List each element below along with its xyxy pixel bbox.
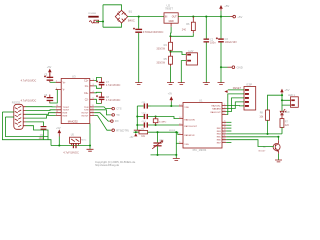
capacitor C5 — [21, 72, 56, 82]
wire bottom rail to bridge — [103, 23, 122, 27]
resistor R8 — [259, 110, 269, 134]
capacitor C6 — [21, 90, 58, 103]
connector X1 AC power input — [88, 13, 99, 23]
junction +5V arrow tap — [220, 16, 222, 18]
svg-text:R1IN: R1IN — [63, 113, 68, 115]
capacitor C1 — [133, 17, 164, 83]
svg-text:CT1: CT1 — [159, 140, 164, 143]
supply symbol +5V U5 — [56, 127, 61, 146]
diode LED — [280, 109, 290, 118]
ground X2 — [178, 83, 185, 85]
wire MCLR into PIC — [176, 132, 179, 134]
svg-text:V-: V- — [63, 90, 65, 92]
wire regulator output rail — [178, 16, 230, 18]
capacitor C7 — [94, 78, 120, 89]
wire R2OUT to RTS — [94, 116, 111, 131]
open pin GND right — [221, 66, 228, 68]
wire U5 rail — [51, 145, 90, 147]
svg-text:4.7uF/16VDC: 4.7uF/16VDC — [21, 79, 37, 83]
svg-text:C2-: C2- — [85, 99, 89, 101]
junction — [102, 20, 104, 22]
supply symbol +5V MCLR — [129, 131, 137, 139]
wire X1 p4 to R2IN — [26, 116, 56, 119]
svg-text:C1+: C1+ — [84, 81, 89, 83]
wire RB2 stub — [226, 127, 231, 129]
svg-text:T2OUT: T2OUT — [63, 110, 70, 112]
resistor R7 — [280, 119, 289, 134]
ground C3 — [218, 83, 225, 85]
svg-text:4.0MHz: 4.0MHz — [159, 121, 167, 123]
svg-text:MOC: MOC — [81, 140, 87, 142]
junction U5 node — [58, 144, 60, 146]
wire ground bus caps — [136, 106, 138, 130]
junction R8 bottom — [266, 133, 268, 135]
wire RB2 to R7 — [226, 133, 282, 135]
junction collector — [277, 136, 279, 138]
svg-text:T1IN: T1IN — [84, 107, 89, 109]
pin stubs U1 left — [179, 106, 183, 143]
wire RB7 stub — [226, 142, 231, 144]
wire T1IN to CTS — [94, 107, 111, 109]
svg-text:RA5/MCLR: RA5/MCLR — [184, 134, 195, 137]
svg-text:MAX232: MAX232 — [68, 120, 79, 124]
svg-text:T1OUT: T1OUT — [63, 107, 70, 109]
wire MCLR node down to ground — [175, 132, 177, 158]
svg-text:+5V: +5V — [47, 66, 52, 69]
svg-text:PIC_16F84: PIC_16F84 — [193, 148, 207, 152]
wire loop B pin stub — [5, 116, 13, 118]
connector X2 LED output — [186, 50, 197, 65]
wire loop A pin stub — [2, 111, 13, 113]
IC U3 MAX232 — [61, 74, 90, 123]
ground T1 — [275, 160, 282, 162]
transistor T1 — [259, 137, 281, 154]
wire U3 GND down — [89, 124, 91, 150]
svg-text:+5V: +5V — [56, 127, 61, 130]
wire X2 pin2 to ground — [181, 61, 186, 83]
svg-text:4.7uF/16VDC: 4.7uF/16VDC — [21, 99, 37, 103]
capacitor C13 — [137, 121, 179, 127]
wire top rail to bridge — [103, 5, 122, 11]
ground C1 — [135, 83, 142, 85]
wire VSS stub — [176, 142, 179, 144]
pin stubs U3 right — [90, 81, 94, 116]
wire X1 p6 loop — [26, 126, 49, 137]
supply symbol +5V PIC — [168, 93, 173, 107]
wire down to LED — [281, 105, 283, 111]
wire SV1 p2 — [226, 94, 244, 115]
wire SV1 p3 — [226, 98, 244, 112]
wire +5V down to LED1 conn — [282, 95, 291, 105]
junction R6 tap — [192, 16, 194, 18]
capacitor C3 — [216, 17, 237, 83]
svg-text:R2IN: R2IN — [63, 116, 68, 118]
supply symbol +5V top — [219, 4, 229, 17]
connector X1 RS232 DB9 — [12, 101, 26, 130]
svg-text:4.7uF/16VDC: 4.7uF/16VDC — [106, 84, 121, 87]
ground bus — [134, 130, 141, 132]
svg-text:RA7/CLKOUT: RA7/CLKOUT — [184, 125, 197, 128]
svg-text:GND: GND — [169, 21, 174, 23]
svg-text:+5V: +5V — [129, 137, 134, 139]
wire loop B — [5, 117, 48, 140]
wire X1 p3 to R1IN — [26, 113, 56, 115]
svg-text:4.7uF/16VDC: 4.7uF/16VDC — [106, 99, 121, 102]
svg-text:C2+: C2+ — [84, 93, 89, 95]
svg-text:BC547: BC547 — [259, 151, 266, 153]
pin stubs U3 left — [56, 82, 62, 115]
resistor R5 — [156, 52, 172, 83]
svg-text:100n: 100n — [210, 41, 216, 44]
svg-text:100uF/16V: 100uF/16V — [225, 41, 238, 44]
svg-text:http://www.dl5neg.de: http://www.dl5neg.de — [95, 163, 120, 167]
open pin RTS(DTR) — [111, 129, 112, 131]
wire SV1 p1 — [228, 89, 244, 91]
IC U1 PIC16F84 — [183, 99, 222, 153]
wire VDD line — [152, 105, 179, 107]
svg-text:LED: LED — [285, 111, 290, 114]
svg-text:IN: IN — [165, 16, 168, 18]
svg-text:R1OUT: R1OUT — [82, 113, 90, 115]
svg-text:330/1W: 330/1W — [156, 48, 165, 51]
svg-text:B40C: B40C — [128, 19, 135, 23]
capacitor C10 — [63, 143, 79, 154]
svg-text:VDD: VDD — [184, 107, 189, 109]
junction bus line3 — [136, 124, 138, 126]
svg-text:+5V: +5V — [224, 4, 229, 8]
svg-text:7805T: 7805T — [165, 7, 173, 11]
wire T2IN to TX — [94, 110, 111, 115]
bridge rectifier B1 — [115, 10, 135, 23]
junction GND rail — [89, 144, 91, 146]
wire to R8 — [268, 95, 283, 110]
resistor R4 — [156, 36, 172, 52]
open pin TX — [111, 114, 112, 116]
wire regulator GND down — [170, 23, 172, 27]
svg-text:MCLR: MCLR — [169, 130, 176, 132]
svg-text:4.7uF/16VDC: 4.7uF/16VDC — [63, 150, 79, 154]
svg-text:T2IN: T2IN — [84, 110, 89, 112]
resistor R1 — [139, 129, 176, 138]
wire RTS to R1 — [133, 131, 139, 133]
svg-text:POWER: POWER — [88, 13, 96, 15]
ground U3 — [87, 149, 94, 151]
wire R1OUT to RX — [94, 113, 109, 121]
svg-text:RA6/CLKIN: RA6/CLKIN — [184, 118, 195, 121]
svg-text:RA2/CIN+: RA2/CIN+ — [212, 105, 222, 108]
wire bottom node — [151, 154, 177, 156]
svg-text:TX: TX — [116, 113, 120, 117]
junction bus line2 — [136, 115, 138, 117]
svg-text:CTS: CTS — [116, 107, 122, 111]
wire to LED connector — [171, 52, 187, 55]
supply symbol +5V MAX232 — [47, 66, 52, 78]
resistor R6 — [171, 17, 196, 37]
svg-text:220: 220 — [285, 124, 290, 127]
svg-text:RTS(DTR): RTS(DTR) — [116, 128, 129, 132]
crystal Q1 — [153, 115, 166, 126]
wire left vertical — [102, 5, 104, 27]
wire bridge + output rail — [128, 16, 164, 18]
svg-text:+5V: +5V — [168, 93, 173, 96]
svg-text:GND: GND — [237, 65, 243, 69]
wire RB0 stub — [226, 121, 231, 123]
voltage regulator U2 — [164, 4, 178, 24]
wire RB1 stub — [226, 124, 231, 126]
wire X1 p5 to C9 — [26, 122, 44, 126]
svg-text:330/1W: 330/1W — [156, 62, 165, 65]
ground C2 — [203, 83, 210, 85]
svg-text:RA0/COUT: RA0/COUT — [210, 111, 221, 114]
junction +5V node — [281, 94, 283, 96]
open pin RX — [110, 120, 111, 122]
pin stubs U1 right — [222, 106, 226, 143]
wire SV1 p4 — [226, 102, 244, 109]
svg-text:R2OUT: R2OUT — [82, 116, 90, 118]
capacitor C11 — [137, 102, 152, 109]
svg-text:OUT: OUT — [172, 16, 177, 18]
connector LED 1 — [288, 94, 298, 107]
wire AC2 to junction — [96, 21, 103, 23]
svg-text:VSS: VSS — [184, 144, 189, 146]
svg-text:RX: RX — [115, 119, 119, 123]
wire loop A — [2, 112, 51, 146]
capacitor C2 — [204, 17, 217, 83]
svg-text:240: 240 — [182, 29, 187, 32]
junction GND node — [169, 35, 171, 37]
svg-text:RA3/AN3: RA3/AN3 — [212, 108, 221, 111]
capacitor C8 — [94, 92, 120, 103]
trimmer capacitor CT1 — [152, 132, 164, 155]
pin numbers — [56, 79, 226, 144]
capacitor C12 — [137, 113, 179, 120]
open pin CTS — [111, 108, 112, 110]
svg-text:4700uF/40VDC: 4700uF/40VDC — [143, 30, 165, 34]
wire emitter to ground — [278, 154, 280, 160]
open pin +5V right — [230, 16, 233, 18]
svg-text:B1: B1 — [129, 10, 133, 14]
junction C1 tap — [138, 16, 140, 18]
junction MCLR vertical — [175, 131, 177, 133]
optocoupler U5 — [70, 134, 87, 146]
wire X1 p1 to T1OUT — [26, 106, 56, 108]
svg-text:U3: U3 — [72, 74, 76, 78]
wire SV1 p5 — [226, 105, 244, 107]
header SV1 — [244, 84, 256, 110]
supply symbol +5V right — [280, 88, 289, 95]
wire RB6 to base — [226, 140, 274, 147]
wire X1 p2 to T2OUT — [26, 109, 56, 112]
ground R5 — [167, 83, 174, 85]
junction R4/R5 — [169, 51, 171, 53]
capacitor C9 — [39, 126, 47, 140]
wire RB3 stub — [226, 130, 231, 132]
svg-text:+5V: +5V — [284, 88, 289, 92]
junction CT1 tap — [156, 131, 158, 133]
junction C2 tap — [205, 16, 207, 18]
wire RB5 to collector — [226, 136, 278, 138]
svg-text:U1: U1 — [199, 99, 203, 103]
ground PIC — [173, 159, 180, 161]
junction GND stub — [220, 66, 222, 68]
svg-text:C1-: C1- — [85, 86, 89, 88]
svg-text:+5V: +5V — [237, 15, 242, 19]
